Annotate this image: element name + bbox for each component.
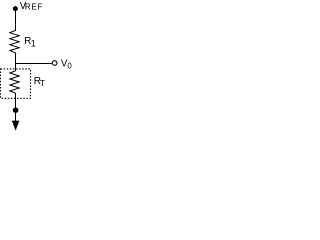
node VREF (top terminal dot): [13, 6, 18, 11]
terminal V0 (open circle): [52, 61, 57, 66]
svg-text:T: T: [40, 78, 45, 88]
label R1: [24, 36, 36, 49]
wire junction to RT: [15, 63, 17, 71]
label RT: [34, 76, 45, 88]
node bottom junction dot: [13, 107, 19, 113]
wire R1 to junction: [15, 53, 17, 64]
svg-text:0: 0: [67, 61, 72, 70]
label V0: [61, 58, 73, 70]
wire VREF to R1: [15, 11, 17, 31]
svg-text:1: 1: [31, 38, 36, 48]
label VREF: [20, 1, 43, 12]
wire RT to ground: [15, 93, 17, 121]
resistor R1: [10, 30, 19, 53]
ground (filled arrow): [12, 121, 20, 131]
svg-text:REF: REF: [25, 3, 43, 12]
resistor RT (thermistor): [10, 71, 19, 93]
thermistor enclosure (dashed box): [1, 69, 31, 98]
wire junction to V0 terminal: [15, 63, 52, 65]
